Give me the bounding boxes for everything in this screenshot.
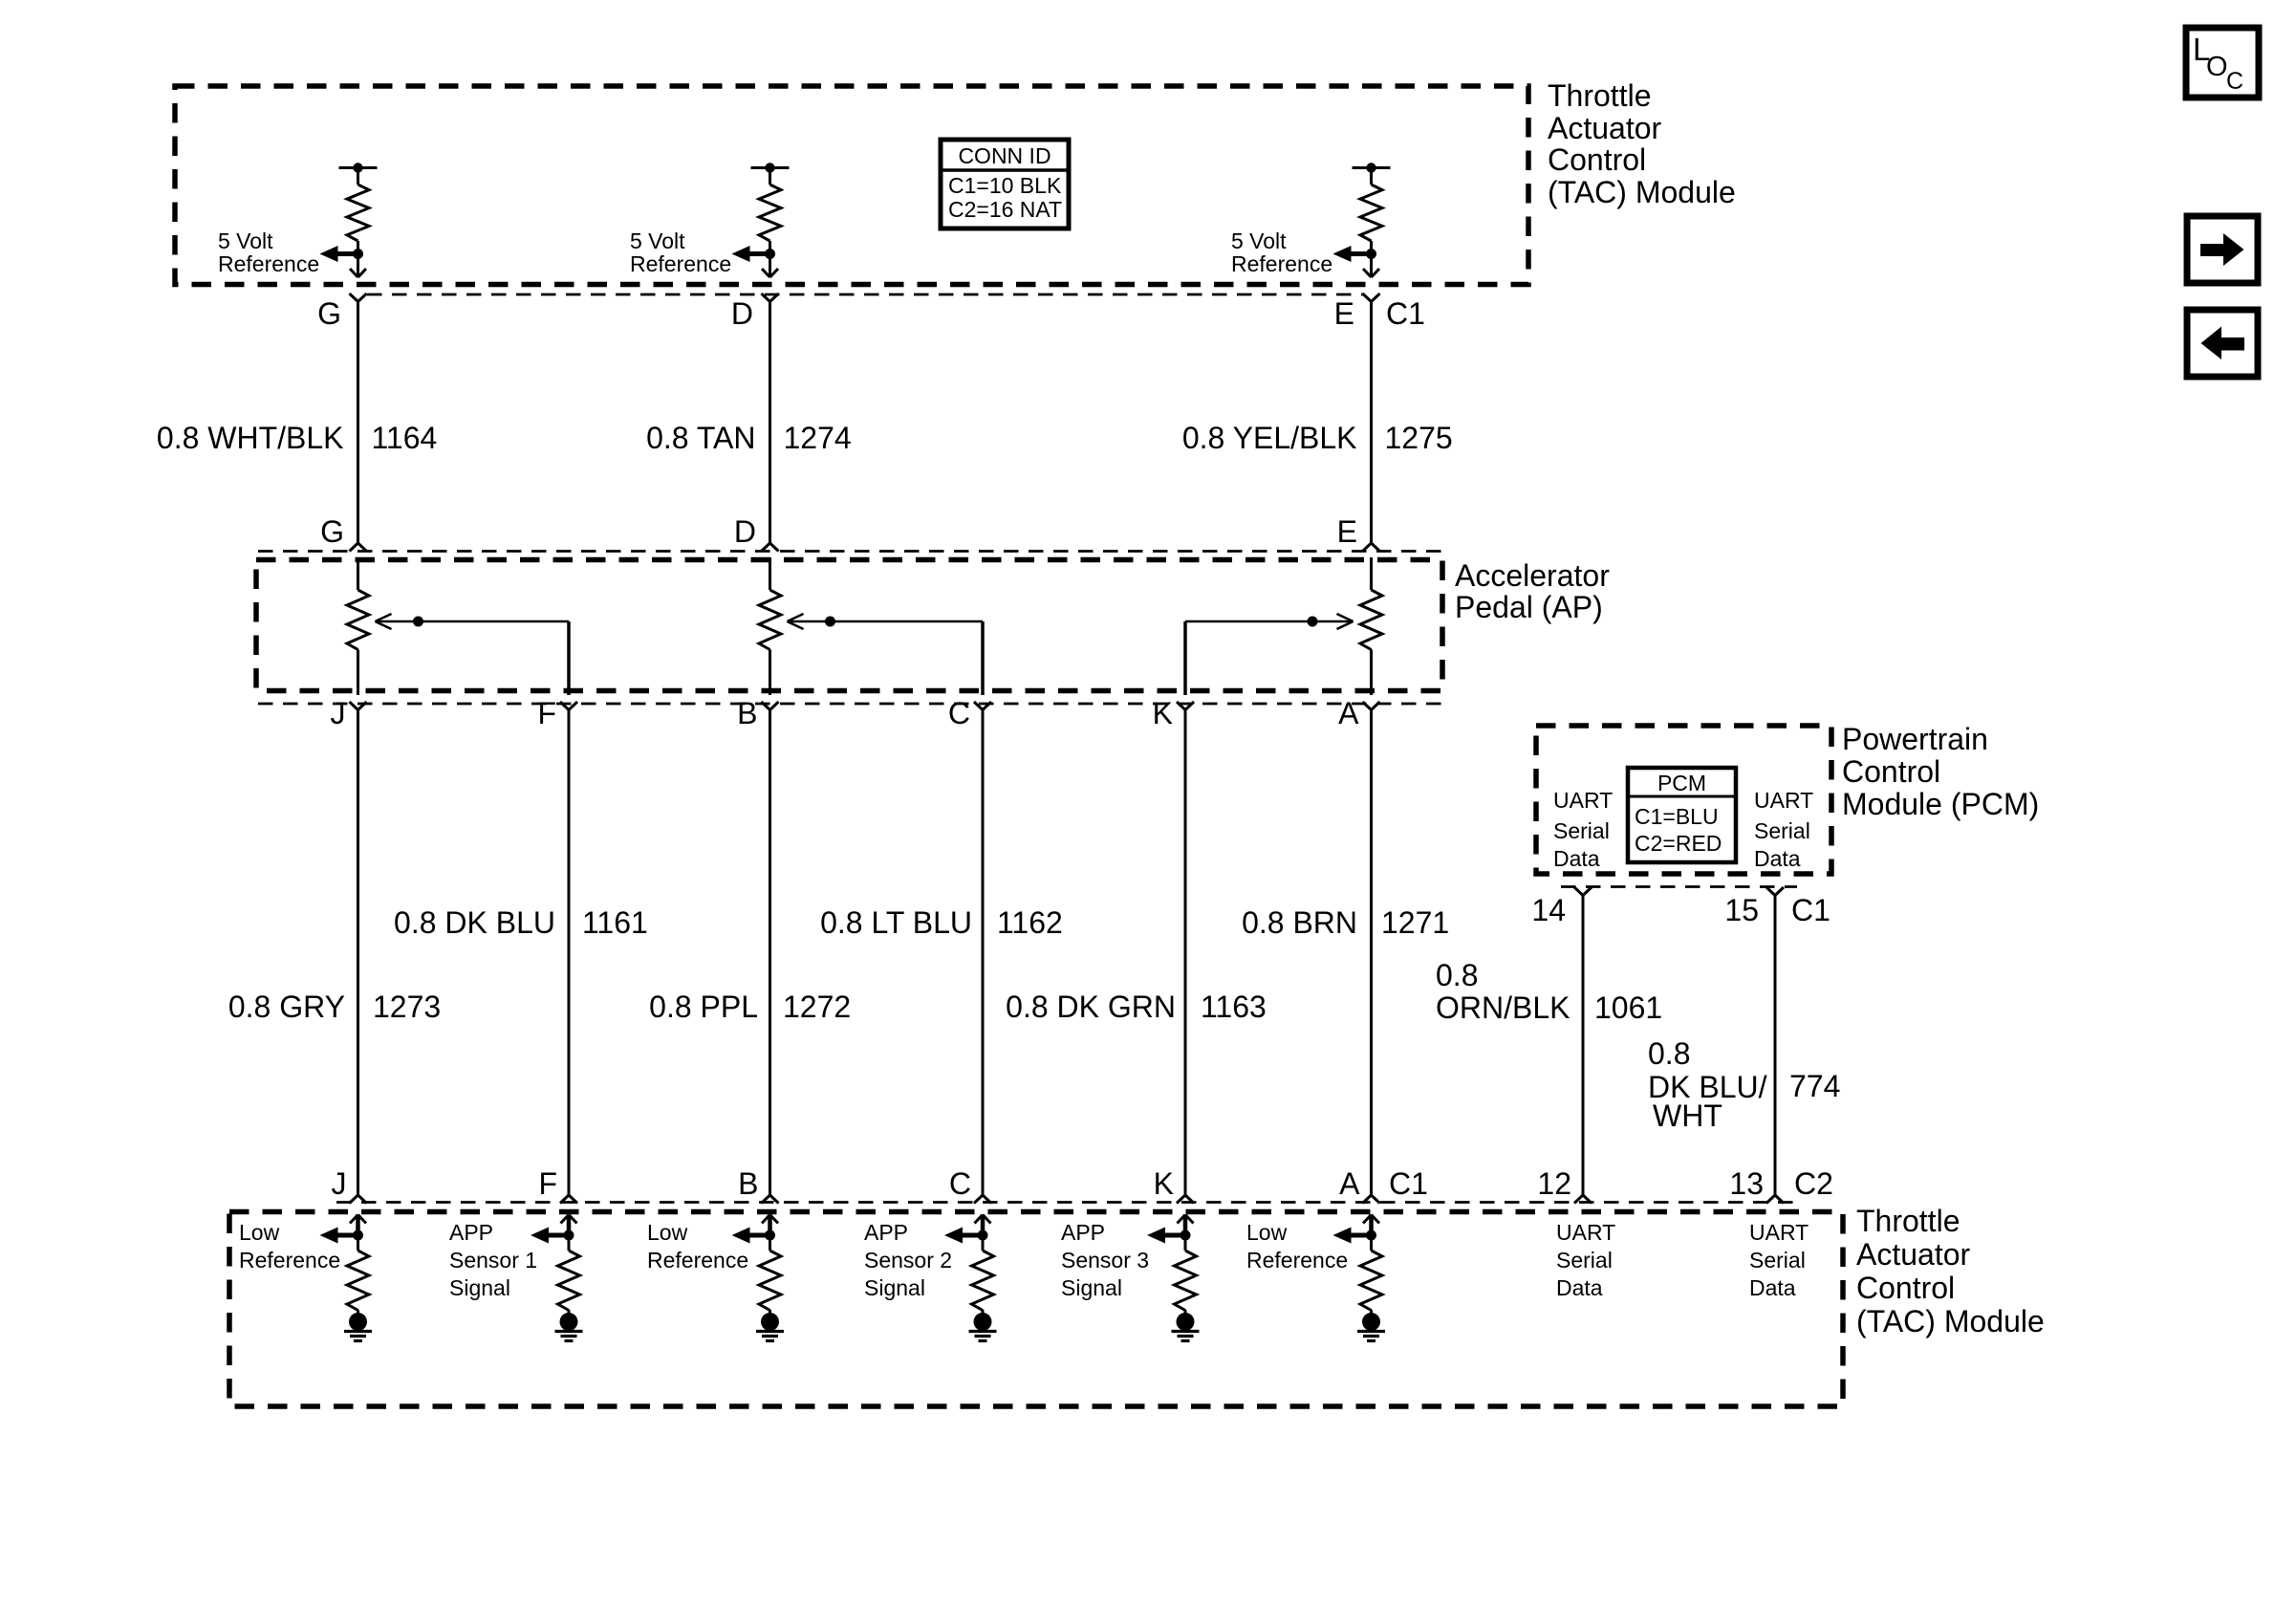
node: junction at pin F (bottom TAC) [564, 1230, 574, 1241]
svg-text:C: C [949, 1166, 971, 1201]
svg-text:13: 13 [1729, 1166, 1764, 1201]
label: pin B (bottom row) [738, 1166, 758, 1201]
svg-text:Reference: Reference [1231, 251, 1332, 276]
svg-text:Throttle: Throttle [1548, 78, 1651, 113]
potentiometer APP sensor 3 (AP) [1360, 557, 1382, 695]
label: 5 Volt Reference (D) [630, 228, 731, 276]
svg-text:0.8 LT BLU: 0.8 LT BLU [820, 905, 972, 940]
label: pin K (bottom row) [1154, 1166, 1174, 1201]
label: C1 (bottom connector row) [1389, 1166, 1428, 1201]
svg-text:Serial: Serial [1553, 818, 1610, 843]
svg-text:B: B [737, 696, 757, 730]
label: UART Serial Data (PCM pin 14) [1553, 788, 1613, 871]
wire: input arrow at pin B (bottom TAC) [762, 1215, 778, 1236]
svg-text:Control: Control [1548, 142, 1646, 177]
svg-text:C1: C1 [1791, 893, 1830, 927]
svg-text:K: K [1153, 696, 1173, 730]
resistor R8 (bottom TAC, pin K) [1175, 1235, 1197, 1311]
svg-text:ORN/BLK: ORN/BLK [1436, 990, 1570, 1025]
connector pin B (bottom TAC top edge) [762, 1195, 779, 1204]
connector pin A (AP bottom) [1363, 702, 1380, 710]
table: PCM connector colour box [1628, 768, 1736, 862]
module box: Powertrain Control Module (PCM) [1536, 726, 1831, 874]
svg-text:C: C [948, 696, 970, 730]
wire from AP pin J down to TAC [357, 710, 359, 1196]
svg-text:Data: Data [1556, 1275, 1603, 1300]
svg-text:1273: 1273 [373, 990, 441, 1024]
svg-text:1275: 1275 [1385, 421, 1453, 455]
wire: signal arrow at pin K [1147, 1228, 1185, 1244]
wire: input arrow at pin F (bottom TAC) [561, 1215, 577, 1236]
wire: input arrow at pin K (bottom TAC) [1178, 1215, 1194, 1236]
connector pin D (AP side) [762, 543, 779, 552]
svg-text:Sensor 2: Sensor 2 [864, 1248, 952, 1273]
connector pin D C1 (TAC, top) [762, 294, 779, 302]
connector pin J (AP bottom) [350, 702, 367, 710]
label: Powertrain Control Module (PCM) [1842, 722, 2039, 821]
label: wire 1272 (0.8 PPL) [649, 990, 851, 1024]
label: Accelerator Pedal (AP) [1455, 558, 1610, 624]
svg-text:0.8 GRY: 0.8 GRY [228, 990, 345, 1024]
node: junction at pin A (bottom TAC) [1366, 1230, 1376, 1241]
connector pin 12 (bottom TAC top edge) [1574, 1195, 1592, 1204]
svg-text:Reference: Reference [218, 251, 319, 276]
ground (bottom TAC, pin B) [756, 1310, 784, 1341]
wire from AP pin F down to TAC [568, 710, 571, 1196]
label: wire 1274 colour [646, 421, 755, 455]
label: C2 (bottom connector row) [1794, 1166, 1833, 1201]
resistor R1 (5 Volt Reference pull-up, TAC pin G) [339, 163, 378, 241]
svg-text:D: D [734, 514, 756, 549]
svg-text:J: J [332, 1166, 347, 1201]
wire: E down to TAC connector [1363, 241, 1379, 277]
label: pin 13 (bottom row) [1729, 1166, 1764, 1201]
svg-text:C2=RED: C2=RED [1635, 831, 1722, 856]
label: Low Reference (pin B) [647, 1220, 748, 1273]
svg-text:Low: Low [239, 1220, 280, 1245]
icon: forward arrow box [2187, 216, 2258, 283]
ground (bottom TAC, pin A) [1357, 1310, 1385, 1341]
connector pin B (AP bottom) [762, 702, 779, 710]
svg-text:C1=10 BLK: C1=10 BLK [948, 173, 1062, 198]
wiper arrow of APP sensor 1 [376, 614, 570, 695]
wire from AP pin K down to TAC [1184, 710, 1187, 1196]
ground (bottom TAC, pin K) [1172, 1310, 1200, 1341]
wire: 5 Volt Reference arrow (D) [732, 246, 770, 262]
resistor R5 (bottom TAC, pin F) [558, 1235, 580, 1311]
wire 1274 (0.8 TAN) from TAC D to AP D [769, 302, 771, 544]
svg-text:5 Volt: 5 Volt [1231, 228, 1287, 253]
svg-text:F: F [537, 696, 556, 730]
svg-text:APP: APP [864, 1220, 908, 1245]
label: pin C (bottom row) [949, 1166, 971, 1201]
svg-text:J: J [331, 696, 346, 730]
label: pin E (TAC side) [1334, 296, 1354, 331]
svg-text:1271: 1271 [1381, 905, 1449, 940]
node: 5V ref junction at D [765, 249, 775, 259]
svg-text:C1: C1 [1389, 1166, 1428, 1201]
connector pin G C1 (TAC, top) [350, 294, 367, 302]
ground (bottom TAC, pin J) [344, 1310, 372, 1341]
svg-text:14: 14 [1531, 893, 1566, 927]
label: APP Sensor 1 Signal (pin F) [449, 1220, 537, 1300]
wire: signal arrow at pin J [320, 1228, 358, 1244]
connector pin C (bottom TAC top edge) [974, 1195, 991, 1204]
svg-text:C1=BLU: C1=BLU [1635, 804, 1719, 829]
svg-text:UART: UART [1553, 788, 1613, 813]
potentiometer APP sensor 1 (AP) [347, 557, 369, 695]
connector pin 13 (bottom TAC top edge) [1766, 1195, 1784, 1204]
svg-text:0.8 BRN: 0.8 BRN [1242, 905, 1357, 940]
wire: input arrow at pin C (bottom TAC) [975, 1215, 991, 1236]
svg-text:WHT: WHT [1653, 1099, 1722, 1133]
label: UART Serial Data (PCM pin 15) [1754, 788, 1813, 871]
label: UART Serial Data (pin 13) [1749, 1220, 1809, 1300]
svg-text:APP: APP [1061, 1220, 1105, 1245]
svg-text:1272: 1272 [783, 990, 851, 1024]
resistor R3 (5 Volt Reference pull-up, TAC pin E) [1353, 163, 1391, 241]
connector line (below PCM box) [1561, 885, 1797, 888]
label: APP Sensor 2 Signal (pin C) [864, 1220, 952, 1300]
wire from AP pin A down to TAC [1370, 710, 1373, 1196]
svg-text:UART: UART [1754, 788, 1813, 813]
resistor R7 (bottom TAC, pin C) [972, 1235, 994, 1311]
node: junction at pin K (bottom TAC) [1180, 1230, 1191, 1241]
svg-text:E: E [1334, 296, 1354, 331]
svg-text:0.8: 0.8 [1648, 1036, 1690, 1071]
wire: signal arrow at pin F [531, 1228, 569, 1244]
svg-text:0.8 YEL/BLK: 0.8 YEL/BLK [1182, 421, 1357, 455]
label: wire 1273 (0.8 GRY) [228, 990, 441, 1024]
wire 1164 (0.8 WHT/BLK) from TAC G to AP G [357, 302, 359, 544]
connector pin K (bottom TAC top edge) [1177, 1195, 1194, 1204]
svg-text:1161: 1161 [582, 905, 648, 940]
svg-text:C: C [2226, 68, 2243, 95]
svg-text:UART: UART [1749, 1220, 1809, 1245]
node: 5V ref junction at E [1366, 249, 1376, 259]
svg-text:(TAC) Module: (TAC) Module [1548, 175, 1736, 209]
svg-text:0.8 TAN: 0.8 TAN [646, 421, 755, 455]
label: wire 1275 colour [1182, 421, 1357, 455]
connector pin 14 C1 (PCM bottom) [1574, 887, 1592, 896]
connector pin F (bottom TAC top edge) [560, 1195, 577, 1204]
wire: signal arrow at pin A [1333, 1228, 1372, 1244]
connector pin G (AP side) [350, 543, 367, 552]
wire 1061 from PCM pin 14 to TAC pin 12 [1582, 896, 1585, 1196]
svg-text:Reference: Reference [239, 1248, 340, 1273]
icon: back arrow box [2187, 310, 2258, 377]
svg-text:F: F [538, 1166, 557, 1201]
svg-text:C2=16 NAT: C2=16 NAT [948, 197, 1062, 222]
label: pin F (bottom row) [538, 1166, 557, 1201]
svg-text:Pedal (AP): Pedal (AP) [1455, 590, 1603, 624]
wire: input arrow at pin A (bottom TAC) [1363, 1215, 1379, 1236]
label: wire 774 (0.8 DK BLU/WHT) [1648, 1036, 1840, 1133]
svg-text:5 Volt: 5 Volt [218, 228, 273, 253]
resistor R2 (5 Volt Reference pull-up, TAC pin D) [751, 163, 790, 241]
connector line (below AP box) [258, 703, 1441, 706]
label: pin 14 (PCM) [1531, 893, 1566, 927]
svg-text:Control: Control [1856, 1271, 1955, 1305]
svg-text:Low: Low [1246, 1220, 1288, 1245]
svg-text:Serial: Serial [1556, 1248, 1613, 1273]
svg-text:C1: C1 [1386, 296, 1425, 331]
svg-text:Sensor 1: Sensor 1 [449, 1248, 537, 1273]
label: C1 (top connector row) [1386, 296, 1425, 331]
node: junction at pin J (bottom TAC) [353, 1230, 363, 1241]
svg-text:1274: 1274 [784, 421, 852, 455]
label: Throttle Actuator Control (TAC) Module (bottom right) [1856, 1204, 2045, 1338]
ground (bottom TAC, pin C) [969, 1310, 997, 1341]
svg-text:C2: C2 [1794, 1166, 1833, 1201]
wiper arrow of APP sensor 3 [1185, 614, 1354, 695]
label: wire 1161 (0.8 DK BLU) [394, 905, 648, 940]
svg-text:Signal: Signal [1061, 1275, 1122, 1300]
module box: Throttle Actuator Control (TAC) Module (top) [175, 86, 1528, 285]
connector pin E C1 (TAC, top) [1363, 294, 1380, 302]
wire: signal arrow at pin C [944, 1228, 983, 1244]
svg-text:Module (PCM): Module (PCM) [1842, 787, 2039, 821]
wire from AP pin B down to TAC [769, 710, 771, 1196]
label: wire 1271 (0.8 BRN) [1242, 905, 1449, 940]
svg-text:APP: APP [449, 1220, 493, 1245]
table: CONN ID box [941, 140, 1069, 228]
wiper arrow of APP sensor 2 [788, 614, 984, 695]
wire: input arrow at pin J (bottom TAC) [350, 1215, 366, 1236]
resistor R4 (bottom TAC, pin J) [347, 1235, 369, 1311]
svg-text:Accelerator: Accelerator [1455, 558, 1610, 593]
module box: Accelerator Pedal (AP) [256, 560, 1442, 691]
svg-text:5 Volt: 5 Volt [630, 228, 685, 253]
svg-text:0.8 DK GRN: 0.8 DK GRN [1006, 990, 1176, 1024]
svg-text:0.8: 0.8 [1436, 958, 1478, 992]
label: pin G (AP side) [320, 514, 344, 549]
svg-text:CONN ID: CONN ID [958, 143, 1051, 168]
connector pin F (AP bottom) [560, 702, 577, 710]
svg-text:0.8 WHT/BLK: 0.8 WHT/BLK [157, 421, 344, 455]
svg-text:Reference: Reference [1246, 1248, 1348, 1273]
resistor R6 (bottom TAC, pin B) [759, 1235, 781, 1311]
node: 5V ref junction at G [353, 249, 363, 259]
svg-text:K: K [1154, 1166, 1174, 1201]
svg-text:UART: UART [1556, 1220, 1615, 1245]
wire 1275 (0.8 YEL/BLK) from TAC E to AP E [1370, 302, 1373, 544]
svg-text:Data: Data [1749, 1275, 1796, 1300]
label: pin C (AP bottom) [948, 696, 970, 730]
label: Throttle Actuator Control (TAC) Module (top right) [1548, 78, 1736, 209]
svg-text:Reference: Reference [647, 1248, 748, 1273]
svg-text:1162: 1162 [997, 905, 1063, 940]
svg-text:Sensor 3: Sensor 3 [1061, 1248, 1149, 1273]
label: pin 15 (PCM) [1724, 893, 1759, 927]
label: pin D (AP side) [734, 514, 756, 549]
svg-text:B: B [738, 1166, 758, 1201]
svg-text:1061: 1061 [1594, 990, 1662, 1025]
label: wire circuit number 1164 [372, 421, 438, 455]
label: Low Reference (pin J) [239, 1220, 340, 1273]
label: C1 (PCM connector) [1791, 893, 1830, 927]
svg-text:A: A [1338, 696, 1359, 730]
connector line C1 (below top TAC box) [367, 294, 1363, 296]
svg-text:O: O [2206, 52, 2228, 82]
svg-text:D: D [731, 296, 753, 331]
label: pin J (AP bottom) [331, 696, 346, 730]
label: pin 12 (bottom row) [1537, 1166, 1571, 1201]
svg-text:15: 15 [1724, 893, 1759, 927]
potentiometer APP sensor 2 (AP) [759, 557, 781, 695]
label: pin A (AP bottom) [1338, 696, 1359, 730]
svg-text:774: 774 [1789, 1069, 1840, 1103]
label: pin E (AP side) [1337, 514, 1357, 549]
svg-text:1163: 1163 [1201, 990, 1267, 1024]
svg-text:Low: Low [647, 1220, 688, 1245]
node: junction at pin C (bottom TAC) [978, 1230, 988, 1241]
svg-text:G: G [320, 514, 344, 549]
label: wire 1163 (0.8 DK GRN) [1006, 990, 1267, 1024]
module box: Throttle Actuator Control (TAC) Module (bottom) [229, 1212, 1843, 1407]
svg-text:0.8 DK BLU: 0.8 DK BLU [394, 905, 555, 940]
svg-text:Reference: Reference [630, 251, 731, 276]
connector pin A (bottom TAC top edge) [1363, 1195, 1380, 1204]
svg-text:PCM: PCM [1657, 771, 1706, 795]
label: pin A (bottom row) [1339, 1166, 1360, 1201]
wire: G down to TAC connector [350, 241, 366, 277]
svg-text:A: A [1339, 1166, 1360, 1201]
svg-text:G: G [317, 296, 341, 331]
ground (bottom TAC, pin F) [555, 1310, 583, 1341]
label: wire 1061 (0.8 ORN/BLK) [1436, 958, 1662, 1025]
label: wire circuit number 1274 [784, 421, 852, 455]
svg-text:Signal: Signal [864, 1275, 925, 1300]
label: 5 Volt Reference (G) [218, 228, 319, 276]
svg-text:12: 12 [1537, 1166, 1571, 1201]
wire from AP pin C down to TAC [982, 710, 985, 1196]
connector line C1/C2 (above bottom TAC box) [336, 1201, 1795, 1204]
connector pin J (bottom TAC top edge) [350, 1195, 367, 1204]
label: pin G (TAC side) [317, 296, 341, 331]
svg-text:Data: Data [1754, 846, 1801, 871]
label: pin B (AP bottom) [737, 696, 757, 730]
svg-text:(TAC) Module: (TAC) Module [1856, 1304, 2045, 1338]
svg-text:1164: 1164 [372, 421, 438, 455]
label: pin D (TAC side) [731, 296, 753, 331]
wire: D down to TAC connector [762, 241, 778, 277]
icon: LOC box (top right) [2186, 28, 2259, 98]
label: pin K (AP bottom) [1153, 696, 1173, 730]
wire: 5 Volt Reference arrow (E) [1333, 246, 1372, 262]
label: APP Sensor 3 Signal (pin K) [1061, 1220, 1149, 1300]
connector pin C (AP bottom) [974, 702, 991, 710]
label: pin F (AP bottom) [537, 696, 556, 730]
label: pin J (bottom row) [332, 1166, 347, 1201]
svg-text:Signal: Signal [449, 1275, 510, 1300]
label: wire 1162 (0.8 LT BLU) [820, 905, 1063, 940]
svg-text:0.8 PPL: 0.8 PPL [649, 990, 758, 1024]
label: UART Serial Data (pin 12) [1556, 1220, 1615, 1300]
label: Low Reference (pin A) [1246, 1220, 1348, 1273]
resistor R9 (bottom TAC, pin A) [1360, 1235, 1382, 1311]
wire 774 from PCM pin 15 to TAC pin 13 [1774, 896, 1777, 1196]
svg-text:Data: Data [1553, 846, 1600, 871]
label: wire 1164 colour [157, 421, 344, 455]
connector line (above AP box) [258, 550, 1441, 553]
svg-text:Actuator: Actuator [1548, 111, 1662, 145]
label: 5 Volt Reference (E) [1231, 228, 1332, 276]
wire: 5 Volt Reference arrow (G) [320, 246, 358, 262]
svg-text:Control: Control [1842, 754, 1940, 789]
svg-text:Serial: Serial [1749, 1248, 1806, 1273]
connector pin K (AP bottom) [1177, 702, 1194, 710]
connector pin E (AP side) [1363, 543, 1380, 552]
node: junction at pin B (bottom TAC) [765, 1230, 775, 1241]
svg-text:E: E [1337, 514, 1357, 549]
svg-text:Throttle: Throttle [1856, 1204, 1960, 1238]
svg-text:Powertrain: Powertrain [1842, 722, 1988, 756]
connector pin 15 C1 (PCM bottom) [1766, 887, 1784, 896]
label: wire circuit number 1275 [1385, 421, 1453, 455]
svg-text:Actuator: Actuator [1856, 1237, 1971, 1272]
wire: signal arrow at pin B [732, 1228, 770, 1244]
svg-text:Serial: Serial [1754, 818, 1810, 843]
